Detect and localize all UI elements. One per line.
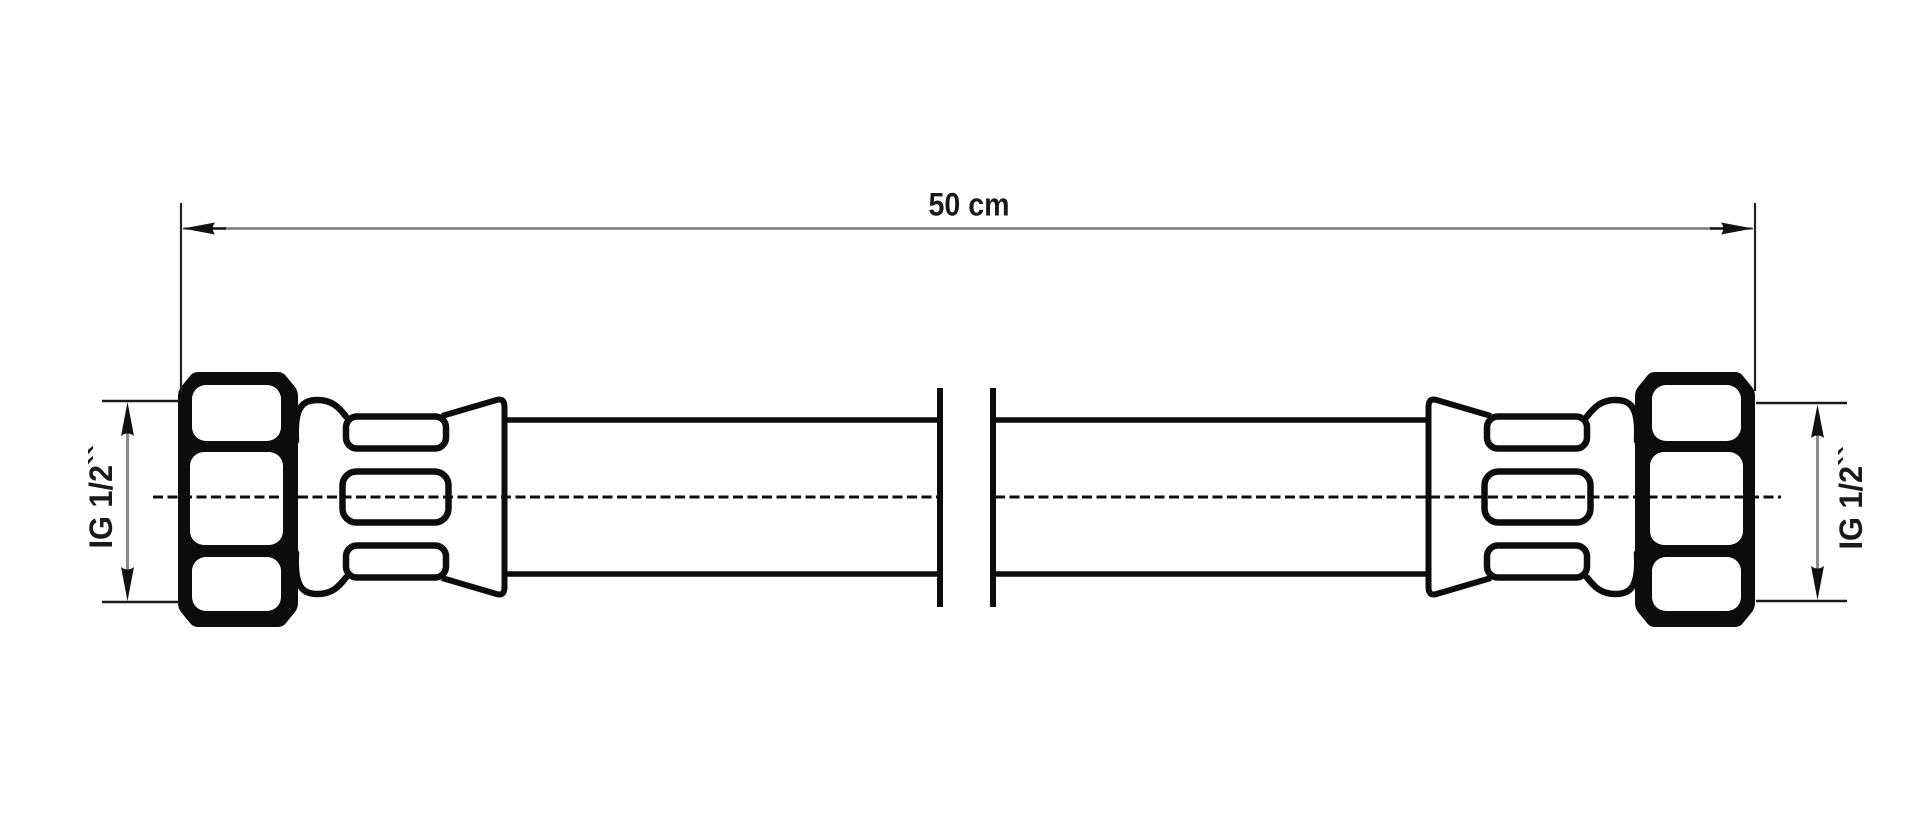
svg-text:IG 1/2``: IG 1/2`` (83, 445, 119, 549)
svg-text:IG 1/2``: IG 1/2`` (1833, 446, 1869, 550)
svg-text:50 cm: 50 cm (929, 187, 1010, 223)
